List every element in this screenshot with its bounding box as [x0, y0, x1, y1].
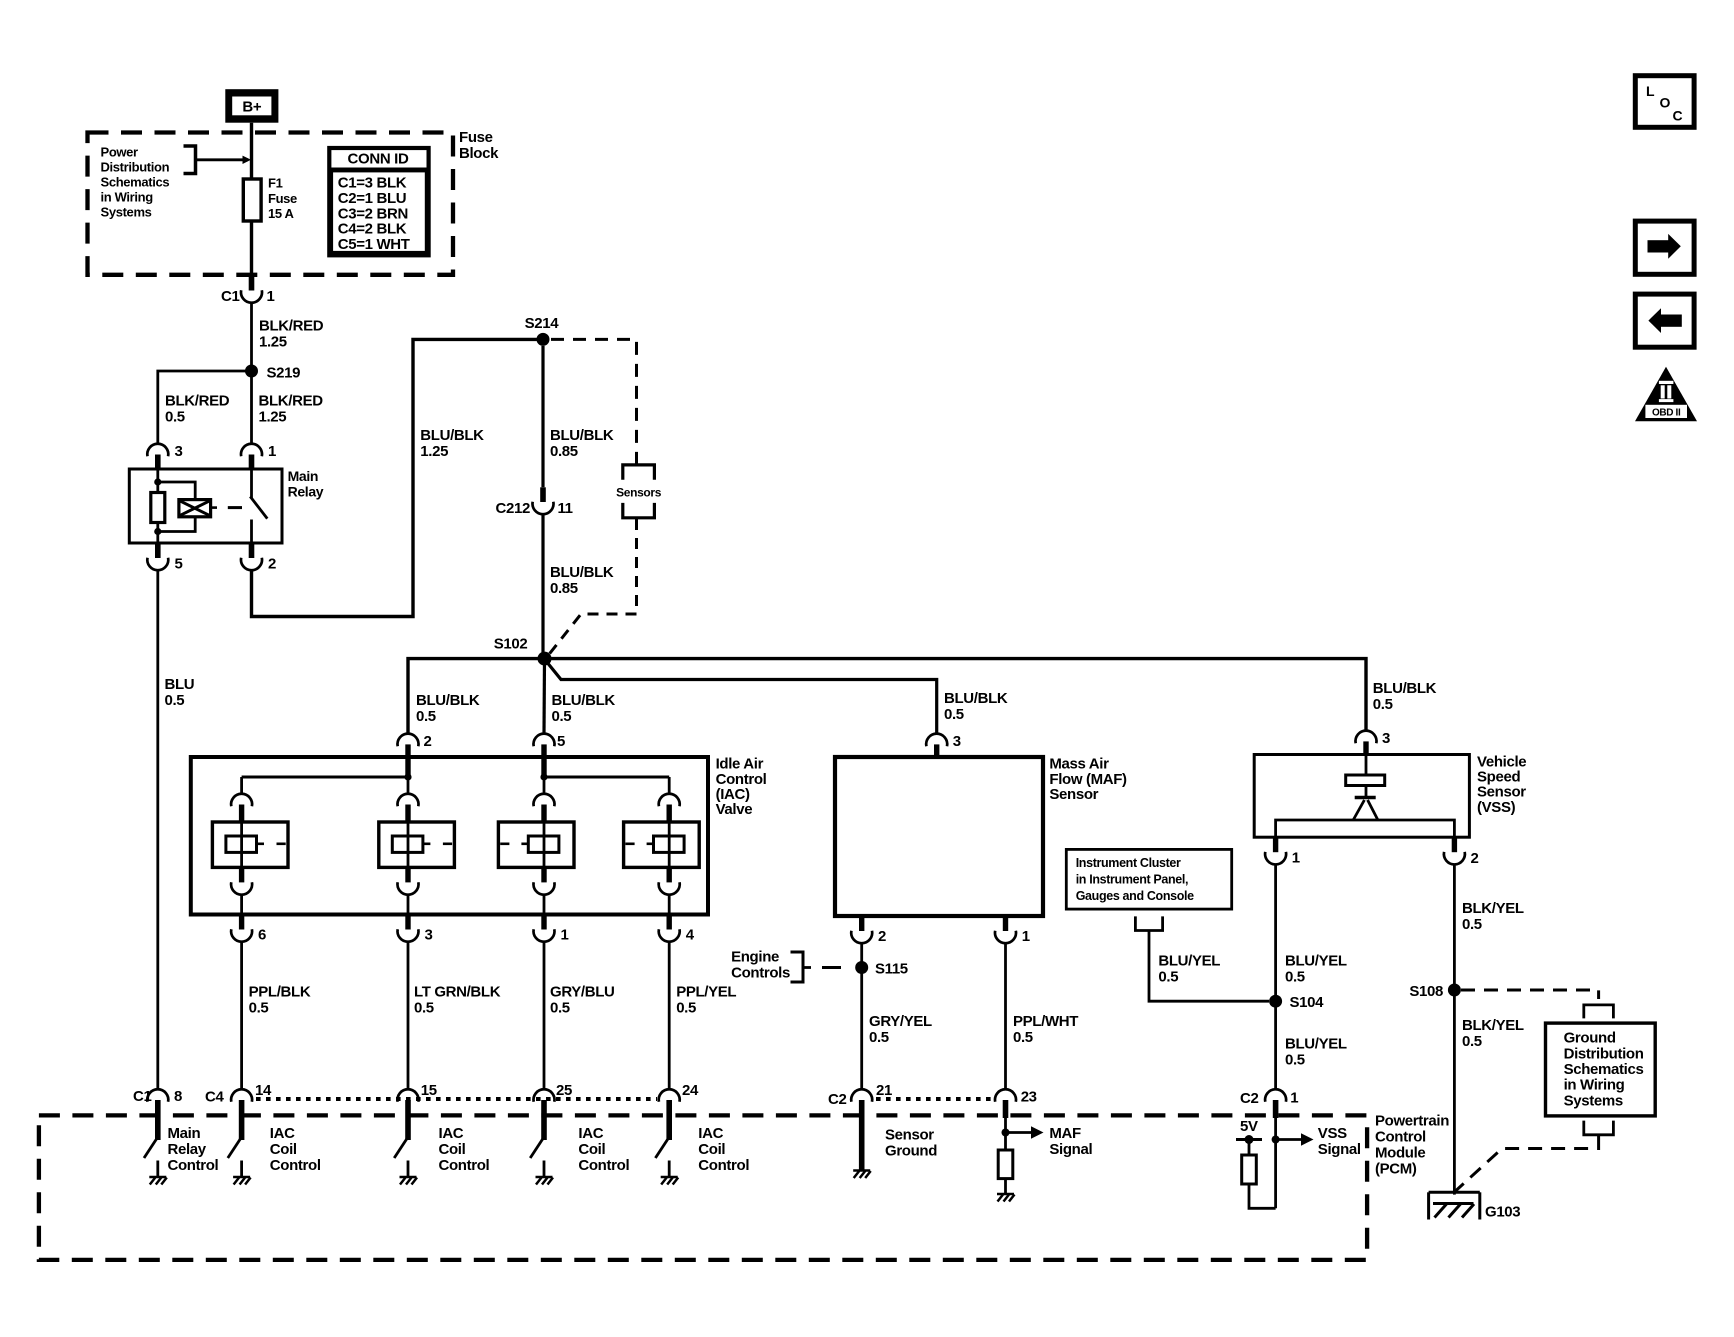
fuse F1 15A [243, 179, 261, 221]
svg-text:BLU/YEL: BLU/YEL [1285, 1036, 1347, 1053]
node S219 [245, 365, 258, 378]
instrument cluster note box [1066, 849, 1231, 909]
svg-text:Coil: Coil [698, 1141, 725, 1158]
svg-text:IAC: IAC [439, 1125, 464, 1142]
svg-text:Ground: Ground [885, 1143, 937, 1160]
svg-text:Block: Block [459, 145, 499, 162]
svg-text:Control: Control [578, 1157, 629, 1174]
svg-text:C1: C1 [221, 288, 239, 305]
svg-text:0.5: 0.5 [165, 409, 185, 426]
wire S102 to IAC pin 5 [542, 659, 546, 734]
wire C212 to S102 [541, 514, 544, 659]
svg-text:Control: Control [1375, 1129, 1426, 1146]
connector IAC bottom pin 4 [667, 915, 672, 930]
wire relay pin 2 to S214 [252, 339, 538, 616]
svg-text:1.25: 1.25 [259, 334, 287, 351]
LOC legend box [1635, 76, 1694, 128]
PCM sensor ground [853, 1171, 871, 1179]
svg-text:C4: C4 [205, 1089, 224, 1106]
svg-text:Relay: Relay [168, 1141, 207, 1158]
svg-text:0.5: 0.5 [414, 1000, 434, 1017]
svg-text:Module: Module [1375, 1145, 1425, 1162]
PCM MAF load resistor [998, 1150, 1013, 1179]
connector relay pin 1 [241, 444, 262, 457]
svg-text:BLK/RED: BLK/RED [165, 393, 230, 410]
svg-text:BLK/YEL: BLK/YEL [1462, 900, 1524, 917]
svg-text:C212: C212 [496, 500, 530, 517]
PCM IAC coil control switch 1 [228, 1139, 241, 1159]
svg-text:1: 1 [267, 288, 275, 305]
IAC coil 3 [498, 777, 574, 915]
svg-text:0.5: 0.5 [165, 692, 185, 709]
svg-text:24: 24 [682, 1082, 699, 1099]
VSS box Vehicle Speed Sensor [1254, 755, 1469, 838]
svg-text:Coil: Coil [270, 1141, 297, 1158]
relay coil element [151, 493, 165, 523]
svg-text:0.5: 0.5 [944, 706, 964, 723]
svg-text:BLU/YEL: BLU/YEL [1158, 953, 1220, 970]
svg-text:11: 11 [558, 500, 573, 517]
svg-text:0.5: 0.5 [1462, 916, 1482, 933]
svg-text:C1: C1 [133, 1088, 151, 1105]
svg-text:Coil: Coil [578, 1141, 605, 1158]
dashed link ground distribution to G103 [1454, 1136, 1598, 1192]
svg-text:Coil: Coil [439, 1141, 466, 1158]
svg-text:Relay: Relay [288, 484, 324, 500]
relay coil bypass loop [158, 482, 195, 532]
svg-text:Main: Main [288, 468, 319, 484]
svg-text:Fuse: Fuse [268, 191, 297, 206]
svg-text:Power: Power [101, 145, 139, 160]
connector C4 pin 15 (PCM) [398, 1089, 419, 1102]
svg-text:S108: S108 [1409, 983, 1443, 1000]
IAC internal bus wire left [242, 776, 408, 779]
svg-text:Main: Main [168, 1125, 201, 1142]
svg-text:F1: F1 [268, 176, 283, 191]
svg-text:Systems: Systems [1564, 1092, 1623, 1109]
connector VSS pin 1 [1273, 837, 1278, 852]
svg-text:CONN ID: CONN ID [348, 151, 409, 168]
wire bracket to B+ feed [196, 158, 249, 161]
svg-text:0.5: 0.5 [1158, 969, 1178, 986]
svg-text:in Wiring: in Wiring [1564, 1077, 1625, 1094]
connector VSS pin 3 [1356, 731, 1377, 744]
wire MAF 1 to C2-23 [1004, 943, 1007, 1090]
svg-text:1.25: 1.25 [259, 409, 287, 426]
svg-text:23: 23 [1021, 1089, 1037, 1106]
svg-text:2: 2 [878, 928, 886, 945]
svg-text:B+: B+ [242, 99, 261, 116]
PCM IAC coil control switch 3 [530, 1139, 543, 1159]
dashed link S108 to ground distribution note [1461, 990, 1599, 999]
relay coil junction top [154, 478, 161, 485]
wire S102 to MAF pin 3 [546, 661, 937, 734]
bracket for Power Distribution note [184, 146, 196, 174]
wire IAC 4 to PCM 24 [668, 942, 671, 1090]
svg-text:1: 1 [1292, 850, 1300, 867]
B+ battery feed terminal [225, 89, 278, 123]
wire relay pin 5 to C1-8 [156, 570, 159, 1090]
svg-text:Distribution: Distribution [1564, 1045, 1644, 1062]
svg-text:IAC: IAC [698, 1125, 723, 1142]
IAC coil 4 [624, 777, 700, 915]
ground distribution note box [1546, 1023, 1656, 1116]
connector MAF pin 3 [926, 734, 947, 747]
svg-text:Fuse: Fuse [459, 129, 493, 146]
MAF sensor box [835, 757, 1043, 916]
relay box Main Relay [129, 469, 282, 543]
svg-text:6: 6 [258, 927, 266, 944]
svg-text:Control: Control [439, 1157, 490, 1174]
connector relay pin 2 [249, 543, 255, 558]
svg-text:14: 14 [255, 1082, 272, 1099]
IAC coil 2 [379, 777, 455, 915]
svg-text:5: 5 [557, 733, 565, 750]
connector C2 pin 23 (PCM) [995, 1089, 1016, 1102]
svg-text:LT GRN/BLK: LT GRN/BLK [414, 984, 501, 1001]
svg-text:0.5: 0.5 [552, 708, 572, 725]
svg-text:1: 1 [561, 927, 569, 944]
svg-text:1: 1 [268, 443, 276, 460]
svg-text:IAC: IAC [578, 1125, 603, 1142]
connector C4 pin 24 (PCM) [659, 1089, 680, 1102]
connector C4 pin 25 (PCM) [534, 1089, 555, 1102]
wire C1 to S219 [250, 303, 253, 372]
svg-text:3: 3 [175, 443, 183, 460]
svg-text:S104: S104 [1290, 994, 1325, 1011]
svg-text:0.5: 0.5 [249, 1000, 269, 1017]
svg-text:0.5: 0.5 [1285, 969, 1305, 986]
svg-text:0.5: 0.5 [869, 1029, 889, 1046]
svg-text:0.5: 0.5 [550, 1000, 570, 1017]
relay switch [250, 471, 253, 499]
bracket above ground distribution box [1584, 1005, 1614, 1019]
svg-text:1: 1 [1290, 1090, 1298, 1107]
svg-text:0.5: 0.5 [1462, 1033, 1482, 1050]
wire instrument cluster to S104 [1149, 931, 1269, 1002]
connector IAC bottom pin 6 [239, 915, 244, 930]
svg-text:Powertrain: Powertrain [1375, 1113, 1449, 1130]
svg-text:8: 8 [174, 1088, 182, 1105]
svg-text:Control: Control [270, 1157, 321, 1174]
connector MAF pin 2 [859, 916, 864, 931]
svg-text:3: 3 [425, 927, 433, 944]
junction arrow on B+ feed [243, 156, 252, 164]
dashed link Sensors to S102 [549, 519, 637, 655]
connector MAF pin 1 [1003, 916, 1008, 931]
connector IAC bottom pin 1 [541, 915, 546, 930]
VSS internal pickup element [1365, 756, 1368, 775]
PCM IAC coil control switch 4 [655, 1139, 668, 1159]
connector IAC pin 5 [534, 734, 555, 747]
connector C212 pin 11 [540, 487, 546, 502]
wire VSS 1 to C2-1 [1274, 864, 1277, 1089]
relay mechanical link (dashed) [228, 506, 242, 509]
arrow previous icon [1635, 294, 1694, 347]
svg-text:PPL/YEL: PPL/YEL [676, 984, 736, 1001]
svg-text:Distribution: Distribution [101, 160, 170, 175]
svg-text:BLU/BLK: BLU/BLK [550, 427, 614, 444]
svg-text:Signal: Signal [1049, 1141, 1092, 1158]
svg-text:C2: C2 [1240, 1090, 1258, 1107]
svg-text:BLU/BLK: BLU/BLK [416, 692, 480, 709]
svg-text:GRY/YEL: GRY/YEL [869, 1013, 932, 1030]
svg-text:Systems: Systems [101, 205, 152, 220]
sensors placeholder component [623, 465, 655, 480]
IAC internal bus wire right [544, 776, 669, 779]
dotted connector line C2 [876, 1097, 993, 1101]
svg-text:in Instrument Panel,: in Instrument Panel, [1076, 873, 1188, 887]
connector IAC bottom pin 3 [405, 915, 410, 930]
wire S219 branch to relay pin 3 [158, 371, 252, 444]
svg-text:L: L [1646, 83, 1655, 99]
OBD II triangle badge [1635, 367, 1697, 421]
connector C2 pin 21 (PCM) [851, 1089, 872, 1102]
connector VSS pin 2 [1452, 837, 1457, 852]
svg-text:BLU/YEL: BLU/YEL [1285, 953, 1347, 970]
node S104 [1269, 995, 1282, 1008]
connector C1 pin 1 (fuse block output) [249, 276, 255, 291]
svg-text:(VSS): (VSS) [1477, 799, 1516, 816]
svg-text:Ground: Ground [1564, 1030, 1616, 1047]
svg-text:BLU/BLK: BLU/BLK [552, 692, 616, 709]
IAC coil 1 [212, 777, 288, 915]
svg-text:Schematics: Schematics [1564, 1061, 1644, 1078]
svg-text:Gauges and Console: Gauges and Console [1076, 889, 1194, 903]
svg-text:0.85: 0.85 [550, 443, 578, 460]
svg-text:15 A: 15 A [268, 206, 295, 221]
svg-text:Schematics: Schematics [101, 175, 170, 190]
wire VSS 2 to G103 [1453, 864, 1456, 1194]
svg-text:Sensors: Sensors [616, 486, 662, 500]
svg-text:0.5: 0.5 [1373, 696, 1393, 713]
PCM box (dashed) [39, 1115, 1367, 1260]
wire MAF 2 to C2-21 [860, 943, 863, 1090]
svg-text:4: 4 [686, 927, 695, 944]
svg-text:0.85: 0.85 [550, 580, 578, 597]
svg-text:O: O [1660, 95, 1671, 111]
relay coil junction bottom [154, 528, 161, 535]
CONN ID table [329, 148, 428, 255]
connector relay pin 3 [147, 444, 168, 457]
wire IAC 6 to PCM 14 [240, 942, 243, 1090]
connector IAC pin 2 [398, 734, 419, 747]
svg-text:Instrument Cluster: Instrument Cluster [1076, 856, 1181, 870]
node S108 [1448, 984, 1461, 997]
svg-text:S214: S214 [525, 315, 560, 332]
svg-text:OBD II: OBD II [1652, 408, 1681, 419]
svg-text:5V: 5V [1240, 1118, 1258, 1135]
svg-text:0.5: 0.5 [1013, 1029, 1033, 1046]
bracket below ground distribution box [1584, 1121, 1614, 1135]
svg-text:2: 2 [268, 556, 276, 573]
node S102 [538, 652, 552, 666]
svg-text:BLK/RED: BLK/RED [259, 318, 324, 335]
IAC valve box [191, 757, 708, 915]
wire S219 down to relay pin 1 [250, 371, 253, 444]
svg-text:3: 3 [1382, 730, 1390, 747]
svg-text:BLU/BLK: BLU/BLK [944, 690, 1008, 707]
svg-text:3: 3 [953, 733, 961, 750]
svg-text:25: 25 [556, 1082, 572, 1099]
PCM main relay control switch [144, 1139, 157, 1159]
svg-text:BLK/RED: BLK/RED [259, 393, 324, 410]
svg-text:C5=1 WHT: C5=1 WHT [338, 236, 410, 253]
connector C1 pin 8 (PCM) [147, 1089, 168, 1102]
connector C2 pin 1 (PCM) [1265, 1089, 1286, 1102]
svg-text:G103: G103 [1485, 1204, 1520, 1221]
wire IAC 1 to PCM 25 [543, 942, 546, 1090]
wire S102 to IAC pin 2 [408, 659, 545, 734]
svg-text:Controls: Controls [731, 965, 790, 982]
svg-text:Sensor: Sensor [885, 1127, 934, 1144]
PCM VSS signal input [1274, 1118, 1277, 1208]
svg-text:in Wiring: in Wiring [101, 190, 154, 205]
svg-text:IAC: IAC [270, 1125, 295, 1142]
ground G103 [1429, 1192, 1480, 1219]
relay coil branch wire [156, 469, 159, 543]
dotted connector line C4 [256, 1097, 657, 1101]
svg-text:(PCM): (PCM) [1375, 1161, 1417, 1178]
wire IAC 3 to PCM 15 [407, 942, 410, 1090]
svg-text:BLU/BLK: BLU/BLK [1373, 680, 1437, 697]
bracket under instrument cluster [1135, 916, 1162, 930]
svg-text:Signal: Signal [1318, 1141, 1361, 1158]
svg-text:PPL/BLK: PPL/BLK [249, 984, 311, 1001]
svg-text:BLU/BLK: BLU/BLK [420, 427, 484, 444]
svg-text:BLU: BLU [165, 676, 195, 693]
svg-text:5: 5 [175, 556, 183, 573]
svg-text:0.5: 0.5 [1285, 1052, 1305, 1069]
dashed link S214 to Sensors [551, 339, 637, 464]
svg-text:Control: Control [168, 1157, 219, 1174]
svg-text:Valve: Valve [716, 801, 753, 818]
svg-text:S102: S102 [494, 636, 528, 653]
wire S102 to VSS pin 3 [545, 659, 1367, 731]
svg-text:S115: S115 [875, 961, 908, 978]
svg-text:15: 15 [421, 1082, 437, 1099]
relay solenoid box with X [179, 500, 211, 517]
svg-text:1: 1 [1022, 928, 1030, 945]
svg-text:2: 2 [1471, 850, 1479, 867]
connector relay pin 5 [155, 543, 161, 558]
svg-text:BLK/YEL: BLK/YEL [1462, 1017, 1524, 1034]
PCM MAF signal input [1004, 1118, 1007, 1150]
svg-text:C: C [1673, 108, 1683, 124]
node S115 [855, 961, 868, 974]
svg-text:C2: C2 [828, 1091, 846, 1108]
svg-text:Engine: Engine [731, 949, 779, 966]
node S214 [537, 333, 550, 346]
VSS internal output wire [1276, 820, 1455, 837]
svg-text:Sensor: Sensor [1049, 786, 1098, 803]
arrow next icon [1635, 221, 1694, 274]
wire S214 down to C212 [541, 346, 544, 487]
svg-text:VSS: VSS [1318, 1125, 1347, 1142]
connector C4 pin 14 (PCM) [231, 1089, 252, 1102]
fuse block (dashed enclosure) [88, 133, 454, 275]
svg-text:0.5: 0.5 [416, 708, 436, 725]
svg-text:1.25: 1.25 [420, 443, 448, 460]
svg-text:0.5: 0.5 [676, 1000, 696, 1017]
svg-text:21: 21 [876, 1082, 892, 1099]
svg-text:2: 2 [424, 733, 432, 750]
PCM IAC coil control switch 2 [394, 1139, 407, 1159]
wire B+ down through fuse block [250, 123, 253, 276]
svg-text:Control: Control [698, 1157, 749, 1174]
svg-text:S219: S219 [267, 365, 301, 382]
svg-text:BLU/BLK: BLU/BLK [550, 564, 614, 581]
svg-text:MAF: MAF [1049, 1125, 1081, 1142]
svg-text:PPL/WHT: PPL/WHT [1013, 1013, 1078, 1030]
svg-text:GRY/BLU: GRY/BLU [550, 984, 615, 1001]
